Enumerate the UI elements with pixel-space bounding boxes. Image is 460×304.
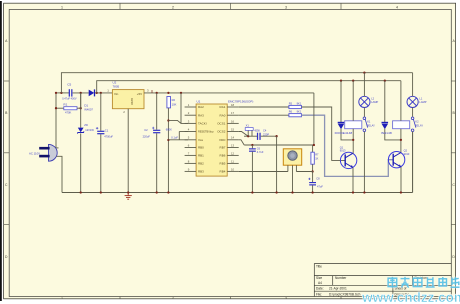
svg-text:Vss: Vss xyxy=(198,138,204,142)
svg-text:Date:: Date: xyxy=(316,286,324,290)
svg-text:220uF: 220uF xyxy=(143,134,151,138)
wire RA0 to R6 xyxy=(239,114,289,116)
svg-text:21-Apr-2001: 21-Apr-2001 xyxy=(329,286,347,290)
svg-text:www.cndzz.com: www.cndzz.com xyxy=(361,290,460,304)
U1 right pin 13 stub xyxy=(227,147,239,149)
watermark chinese characters xyxy=(388,277,460,288)
junction R2 top xyxy=(167,92,169,94)
junction bus B D2 xyxy=(340,80,342,82)
svg-text:RB1: RB1 xyxy=(198,154,204,158)
svg-text:9013: 9013 xyxy=(340,149,346,153)
junction osc gnd corner xyxy=(275,135,277,137)
zone tick bottom xyxy=(119,297,121,299)
crystal left lead xyxy=(247,130,249,136)
wire zener bottom xyxy=(80,133,82,192)
wire C1 top lead xyxy=(100,93,102,131)
wire L2 top xyxy=(363,73,365,97)
svg-text:455K: 455K xyxy=(254,129,260,132)
wire TCKI riser xyxy=(180,93,182,124)
svg-text:R2: R2 xyxy=(172,98,176,102)
left black edge strip xyxy=(0,1,2,301)
AC plug body xyxy=(49,144,58,161)
relay K1 contact arm xyxy=(365,119,368,127)
wire C8 bottom lead xyxy=(312,185,314,192)
wire D1 to 7805 xyxy=(95,92,112,94)
relay K2 coil xyxy=(393,121,410,129)
resistor R7 xyxy=(311,152,314,164)
zone tick left xyxy=(4,224,10,226)
svg-text:OCS1: OCS1 xyxy=(217,122,226,126)
AC plug prong top xyxy=(39,147,49,150)
wire bus A xyxy=(61,73,412,93)
svg-text:IN4007: IN4007 xyxy=(84,108,93,112)
wire osc gnd riser xyxy=(276,136,278,192)
junction rail xyxy=(80,191,82,193)
svg-text:A4: A4 xyxy=(318,281,322,285)
ir sensor lens core xyxy=(290,153,295,158)
svg-text:12V1W: 12V1W xyxy=(85,128,94,132)
svg-text:0.1uF: 0.1uF xyxy=(171,135,178,139)
wire 5V rail xyxy=(144,92,314,94)
junction rail xyxy=(156,191,158,193)
svg-text:VDD: VDD xyxy=(219,138,226,142)
wire zener top xyxy=(80,93,82,128)
crystal X1 xyxy=(245,128,253,131)
wire C6 bottom lead xyxy=(251,152,253,193)
zone tick right xyxy=(451,152,455,154)
svg-text:R1: R1 xyxy=(63,103,67,107)
svg-text:2: 2 xyxy=(172,5,174,9)
svg-text:ZD: ZD xyxy=(84,123,88,127)
U1 left pin 7 stub xyxy=(185,154,197,156)
svg-text:U1: U1 xyxy=(197,100,201,104)
svg-text:R6: R6 xyxy=(289,110,293,114)
zone tick top xyxy=(119,3,121,9)
wire RA1 to R5 xyxy=(239,106,289,108)
wire R2 bottom xyxy=(167,108,169,193)
svg-text:Q2: Q2 xyxy=(404,149,408,153)
U1 left pin 3 stub xyxy=(185,122,197,124)
svg-text:15: 15 xyxy=(231,127,235,131)
zone tick right xyxy=(451,224,455,226)
relay K1 contact top xyxy=(363,117,366,120)
zone tick left xyxy=(4,80,10,82)
AC plug prong bottom xyxy=(39,155,49,158)
svg-text:OCS2: OCS2 xyxy=(217,130,226,134)
relay K2 contact top xyxy=(411,117,414,120)
svg-text:GND: GND xyxy=(130,98,134,106)
wire D2 bottom xyxy=(341,129,353,140)
junction rail xyxy=(127,191,129,193)
wire relay1 coil bottom xyxy=(352,129,354,153)
wire plug bottom lead xyxy=(56,156,62,192)
svg-text:RB7: RB7 xyxy=(220,146,226,150)
resistor R5 xyxy=(289,105,302,108)
capacitor C2 plus xyxy=(152,127,154,129)
wire C2 top lead xyxy=(156,93,158,130)
wire ground rail xyxy=(62,192,413,194)
svg-text:Size: Size xyxy=(316,276,322,280)
svg-text:11: 11 xyxy=(231,159,234,163)
svg-text:C2: C2 xyxy=(144,128,148,132)
svg-text:RB0: RB0 xyxy=(198,146,204,150)
svg-text:14: 14 xyxy=(231,136,235,140)
sensor pin3 lead xyxy=(295,165,297,171)
svg-text:47uF: 47uF xyxy=(317,185,323,189)
relay K1 contact bottom xyxy=(363,129,366,132)
svg-text:RA0: RA0 xyxy=(220,113,226,117)
junction crystal left lead xyxy=(247,135,249,137)
capacitor C5 plate left xyxy=(69,89,70,96)
capacitor C4 plate left xyxy=(257,133,258,140)
svg-text:R5: R5 xyxy=(289,101,293,105)
wire D2 top xyxy=(340,81,342,123)
svg-text:AC 110V: AC 110V xyxy=(29,152,40,156)
ground symbol xyxy=(125,193,132,200)
wire plug top riser xyxy=(55,93,57,148)
svg-text:4: 4 xyxy=(396,5,398,9)
svg-text:C6: C6 xyxy=(257,146,261,150)
svg-text:9013: 9013 xyxy=(404,152,410,156)
svg-text:Title: Title xyxy=(316,265,322,269)
svg-text:RA2: RA2 xyxy=(198,105,204,109)
U1 left pin 9 stub xyxy=(185,170,197,172)
svg-text:RB4: RB4 xyxy=(220,170,226,174)
zone tick top xyxy=(230,3,232,9)
svg-text:K1: K1 xyxy=(367,120,371,124)
svg-text:D:\prog\CX9876B.Sch: D:\prog\CX9876B.Sch xyxy=(329,292,361,296)
wire 5V drop right xyxy=(313,93,315,145)
resistor R1 xyxy=(64,107,77,110)
svg-text:10K: 10K xyxy=(172,102,177,106)
svg-text:RB2: RB2 xyxy=(198,162,204,166)
wire R1 left hook xyxy=(56,107,64,109)
junction rail xyxy=(167,191,169,193)
junction C5 right xyxy=(80,92,82,94)
wire rail right riser xyxy=(412,132,414,193)
svg-text:12: 12 xyxy=(231,151,235,155)
capacitor C5 plate right xyxy=(71,89,72,96)
svg-text:17: 17 xyxy=(231,111,235,115)
diode D1 xyxy=(89,90,95,97)
junction rail xyxy=(352,191,354,193)
svg-text:16: 16 xyxy=(231,119,235,123)
wire L1 bottom xyxy=(412,108,414,117)
wire relay2 coil bottom xyxy=(400,129,402,153)
transistor Q1 xyxy=(340,152,356,168)
power +5V tick xyxy=(151,90,153,93)
sensor pin1 lead xyxy=(287,165,289,171)
zone tick left xyxy=(4,152,10,154)
svg-text:C1: C1 xyxy=(105,129,109,133)
junction rail xyxy=(363,191,365,193)
svg-text:0.47uF 400V: 0.47uF 400V xyxy=(62,98,77,101)
lamp L2 xyxy=(359,96,370,107)
sensor pin2 lead xyxy=(292,165,294,192)
wire R5 to Q1 base xyxy=(301,107,345,160)
wire relay1 contact down xyxy=(363,132,365,193)
wire Vss to chip xyxy=(168,139,188,141)
U1 right pin 11 stub xyxy=(227,162,239,164)
svg-text:Number: Number xyxy=(335,276,347,280)
diode D2 xyxy=(338,122,345,124)
transistor Q2 xyxy=(388,152,404,168)
relay K1 coil xyxy=(345,121,362,129)
svg-text:4.7uF: 4.7uF xyxy=(257,150,264,154)
svg-text:C8: C8 xyxy=(316,176,320,180)
junction R1 right xyxy=(80,107,82,109)
svg-text:RESETB/Vpp: RESETB/Vpp xyxy=(198,130,214,134)
zone tick bottom xyxy=(340,297,342,299)
resistor R6 xyxy=(289,114,302,117)
svg-text:LAMP: LAMP xyxy=(371,100,378,104)
junction C6 tap xyxy=(251,144,253,146)
junction Q2 collector node xyxy=(400,139,402,141)
wire L2 bottom xyxy=(363,108,365,117)
wire VDD diag xyxy=(239,140,245,145)
wire bus B xyxy=(97,81,401,93)
U1 right pin 12 stub xyxy=(227,154,239,156)
wire C2 bottom lead xyxy=(156,133,158,192)
junction rail xyxy=(100,191,102,193)
capacitor C8 plus xyxy=(308,178,310,180)
diode D3 xyxy=(382,122,389,124)
svg-text:R7: R7 xyxy=(315,152,319,156)
wire R1 right hook xyxy=(77,107,81,109)
svg-text:7805: 7805 xyxy=(113,85,120,89)
wire relay2 coil top xyxy=(400,81,402,121)
regulator U2 7805 body xyxy=(112,90,144,109)
svg-text:RA3: RA3 xyxy=(198,113,204,117)
wire RESETB ext xyxy=(179,131,188,133)
wire C1 bottom lead xyxy=(100,134,102,192)
junction rail xyxy=(311,191,313,193)
junction R1 left xyxy=(55,107,57,109)
wire D3 bottom xyxy=(385,129,401,140)
svg-text:C5: C5 xyxy=(67,83,71,87)
svg-text:RA1: RA1 xyxy=(220,105,226,109)
title block frame xyxy=(314,264,451,297)
capacitor C2 plate bottom xyxy=(153,132,160,133)
svg-text:RB5: RB5 xyxy=(220,162,226,166)
svg-text:RELAY: RELAY xyxy=(415,124,424,128)
U1 right pin 10 stub xyxy=(227,170,239,172)
junction busA tap xyxy=(60,92,62,94)
svg-text:680K: 680K xyxy=(166,128,172,132)
capacitor C1 plus xyxy=(96,127,98,129)
ir sensor U3 body xyxy=(283,149,301,165)
U1 left pin 6 stub xyxy=(185,147,197,149)
wire R1 node riser xyxy=(80,93,82,108)
zone tick right xyxy=(451,80,455,82)
junction RB4 node xyxy=(311,170,313,172)
U1 left pin 1 stub xyxy=(185,106,197,108)
U1 right pin 17 stub xyxy=(227,114,239,116)
svg-text:1K: 1K xyxy=(315,157,318,161)
junction busB tap xyxy=(96,92,98,94)
wire sensor out run xyxy=(296,171,312,173)
wire Q2 emitter xyxy=(400,167,402,193)
U1 left pin 2 stub xyxy=(185,114,197,116)
U1 right pin 14 stub xyxy=(227,139,239,141)
junction Vss tap xyxy=(167,139,169,141)
svg-text:LAMP: LAMP xyxy=(419,100,426,104)
wire relay2 contact down xyxy=(412,132,414,193)
junction rail xyxy=(251,191,253,193)
junction R2 TCKI tap xyxy=(167,119,169,121)
capacitor C6 plate bottom xyxy=(249,151,256,152)
wire Q1 collector stub xyxy=(352,152,354,155)
wire OSC2 diag xyxy=(239,132,249,137)
U1 left pin 5 stub xyxy=(185,139,197,141)
wire relay1 coil top xyxy=(352,81,354,121)
junction rail xyxy=(291,191,293,193)
relay K2 contact bottom xyxy=(411,129,414,132)
svg-text:D1: D1 xyxy=(84,104,88,108)
capacitor C6 plate top xyxy=(249,148,256,149)
wire TCKI link xyxy=(168,120,188,123)
junction C1 top xyxy=(100,92,102,94)
mcu U1 body xyxy=(196,104,227,176)
U1 left pin 4 stub xyxy=(185,131,197,133)
wire R6 to Q2 base xyxy=(301,115,392,176)
junction TCKI riser top xyxy=(180,92,182,94)
svg-text:K2: K2 xyxy=(415,120,419,124)
svg-text:9K1: 9K1 xyxy=(297,110,302,114)
resistor R2 xyxy=(167,97,171,108)
svg-text:18: 18 xyxy=(231,103,235,107)
crystal right lead xyxy=(251,130,253,136)
junction C2 top xyxy=(156,92,158,94)
junction rail xyxy=(400,191,402,193)
svg-text:4700uF: 4700uF xyxy=(104,134,113,138)
svg-text:File:: File: xyxy=(316,292,322,296)
svg-text:9K1: 9K1 xyxy=(297,101,302,105)
wire AC node to C5 xyxy=(56,92,69,94)
junction Q1 collector node xyxy=(352,139,354,141)
svg-text:1: 1 xyxy=(61,5,63,9)
junction R7 top xyxy=(313,144,315,146)
svg-text:IN4148: IN4148 xyxy=(381,131,392,135)
wire C5 to node xyxy=(73,92,89,94)
wire C6 top lead xyxy=(251,145,253,148)
svg-text:RELAY: RELAY xyxy=(367,124,376,128)
wire Q1 emitter xyxy=(352,168,354,193)
wire L1 top xyxy=(412,73,414,97)
capacitor C8 plate top xyxy=(309,182,316,183)
capacitor C1 plate top xyxy=(97,131,104,132)
capacitor C8 plate bottom xyxy=(309,184,316,185)
svg-text:Vin: Vin xyxy=(114,92,119,96)
wire R7 top lead xyxy=(312,145,314,152)
wire RESETB down link xyxy=(178,132,180,140)
junction bus B D3 xyxy=(384,80,386,82)
junction bus B relay1 xyxy=(352,80,354,82)
svg-text:X1: X1 xyxy=(246,123,250,127)
svg-text:13: 13 xyxy=(231,143,235,147)
wire osc upper to gnd riser xyxy=(261,135,277,137)
wire R7 bottom lead xyxy=(312,164,314,171)
relay K2 contact arm xyxy=(413,119,416,127)
junction bus A lamp2 xyxy=(363,72,365,74)
svg-text:470K: 470K xyxy=(65,110,71,114)
U1 left pin 8 stub xyxy=(185,162,197,164)
ir sensor lens ring xyxy=(288,151,297,160)
U1 right pin 16 stub xyxy=(227,122,239,124)
wire osc upper run xyxy=(244,135,257,137)
svg-text:C4: C4 xyxy=(263,129,267,133)
wire VDD run xyxy=(244,144,314,146)
capacitor C2 plate top xyxy=(153,130,160,131)
svg-text:10: 10 xyxy=(231,167,235,171)
wire C8 top lead xyxy=(312,172,314,183)
svg-text:TACKI: TACKI xyxy=(198,122,207,126)
zener diode ZD xyxy=(78,128,84,133)
junction plug riser top xyxy=(55,92,57,94)
wire RB4 run xyxy=(239,171,288,173)
capacitor C1 plate bottom xyxy=(97,133,104,134)
svg-text:+5V: +5V xyxy=(137,92,142,96)
junction rail xyxy=(275,191,277,193)
U1 right pin 15 stub xyxy=(227,131,239,133)
zone tick bottom xyxy=(230,297,232,299)
lamp L1 xyxy=(407,96,418,107)
zone tick top xyxy=(340,3,342,9)
svg-text:RB6: RB6 xyxy=(220,154,226,158)
wire plug top lead xyxy=(56,147,58,149)
U1 right pin 18 stub xyxy=(227,106,239,108)
svg-text:RB3: RB3 xyxy=(198,170,204,174)
wire D3 top xyxy=(384,81,386,123)
svg-text:DIODE4148: DIODE4148 xyxy=(335,131,353,135)
capacitor C4 plate right xyxy=(259,133,260,140)
wire 7805 gnd drop xyxy=(127,109,129,193)
svg-text:3: 3 xyxy=(285,5,287,9)
